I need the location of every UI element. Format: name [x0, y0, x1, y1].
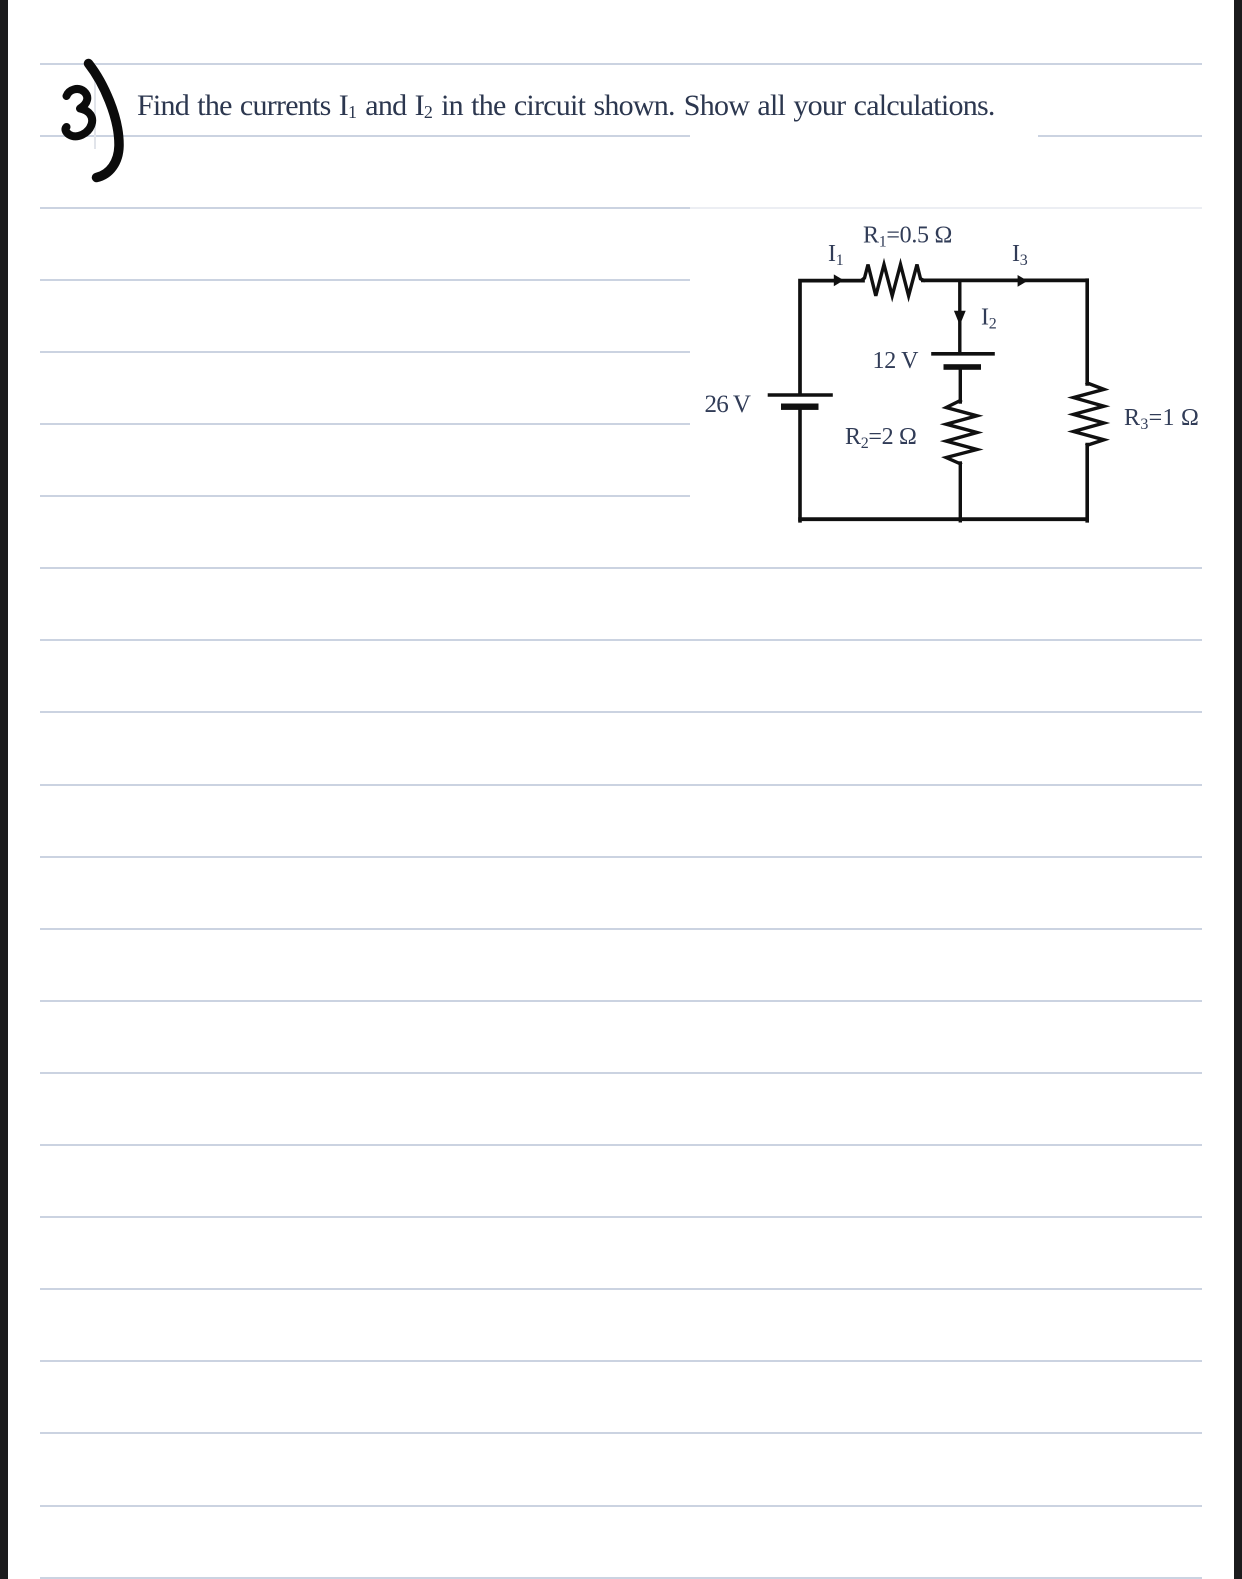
wire left branch lower (battery bottom down to bottom-left corner) [798, 408, 802, 521]
label R2=2 ohm [845, 424, 917, 452]
svg-text:I1: I1 [828, 241, 844, 269]
CIRCUIT SVG [690, 215, 1210, 535]
handwritten problem number 3) [50, 50, 140, 190]
wire bottom rail [798, 517, 1089, 521]
label 26 V [705, 391, 751, 418]
label R1=0.5 ohm [863, 223, 952, 251]
svg-text:26 V: 26 V [705, 391, 751, 418]
svg-text:R2=2 Ω: R2=2 Ω [845, 424, 917, 452]
svg-text:R1=0.5 Ω: R1=0.5 Ω [863, 223, 952, 251]
wire middle branch between battery and R2 [959, 369, 962, 402]
label I2 [981, 305, 997, 333]
arrow I1 current direction [834, 274, 844, 286]
label I3 [1012, 241, 1028, 269]
wire top middle segment (R1 to right corner) [921, 278, 1089, 282]
svg-text:I3: I3 [1012, 241, 1028, 269]
wire middle branch lower [959, 463, 962, 521]
left black border bar [0, 0, 8, 1579]
battery 12V [933, 354, 993, 370]
battery 26V [770, 395, 832, 410]
svg-text:I2: I2 [981, 305, 997, 333]
label 12 V [873, 348, 920, 374]
faint vertical cell line near the handwritten 3) [94, 64, 96, 149]
right black border bar [1234, 0, 1242, 1579]
svg-text:12 V: 12 V [873, 348, 920, 374]
arrow I2 current direction [954, 311, 966, 326]
label I1 [828, 241, 844, 269]
wire right branch lower [1085, 445, 1089, 521]
resistor R3 zigzag [1074, 383, 1105, 445]
wire left branch upper (battery top to top-left corner and to R1) [800, 281, 863, 393]
resistor R1 zigzag [862, 265, 924, 296]
wire right branch upper [1085, 280, 1089, 384]
label R3=1 ohm [1124, 405, 1199, 433]
arrow I3 current direction [1018, 275, 1028, 287]
ruled lines [40, 63, 1202, 65]
svg-text:R3=1 Ω: R3=1 Ω [1124, 405, 1199, 433]
resistor R2 zigzag [946, 401, 977, 464]
node junction middle top [958, 280, 961, 352]
problem statement text [137, 91, 995, 127]
